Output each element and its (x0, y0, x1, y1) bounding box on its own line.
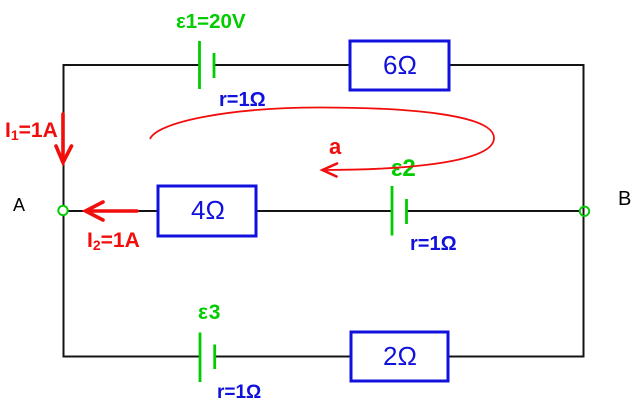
battery E2 long plate (391, 186, 394, 236)
svg-text:4Ω: 4Ω (191, 195, 225, 225)
svg-text:B: B (618, 188, 631, 210)
loop direction curve a (red spiral arrow) (150, 108, 494, 171)
battery E1 short plate (213, 53, 216, 78)
svg-text:6Ω: 6Ω (383, 50, 417, 80)
wire bottom-middle segment (battery e3 to 2 ohm box) (215, 356, 351, 358)
svg-text:2Ω: 2Ω (383, 341, 417, 371)
wire middle-left segment (node A to 4 ohm box) (68, 210, 158, 212)
resistor box 4 ohm (158, 186, 256, 236)
battery E3 long plate (199, 333, 202, 383)
wire bottom-left segment (64, 356, 201, 358)
resistor box 6 ohm (350, 41, 449, 90)
current arrow I2 (pointing left toward node A) (86, 202, 138, 220)
wire right vertical (583, 64, 585, 358)
node A terminal circle (58, 206, 67, 215)
svg-text:ε3: ε3 (198, 301, 221, 324)
current arrow I1 (down along left wire) (56, 114, 72, 163)
svg-text:r=1Ω: r=1Ω (410, 233, 457, 255)
resistor box 2 ohm (351, 332, 448, 381)
battery E2 short plate (405, 199, 408, 224)
svg-text:r=1Ω: r=1Ω (217, 382, 261, 403)
wire top-middle segment (battery to 6 ohm box) (214, 64, 350, 66)
svg-text:r=1Ω: r=1Ω (219, 89, 266, 111)
node B terminal circle (580, 207, 589, 216)
svg-text:A: A (13, 195, 25, 215)
svg-text:I1=1A: I1=1A (5, 119, 58, 143)
loop arrowhead (323, 164, 338, 177)
wire middle segment (4 ohm box to battery e2) (256, 210, 392, 212)
battery E1 long plate (198, 41, 201, 89)
wire left vertical (63, 64, 65, 358)
wire top-left segment (64, 64, 200, 66)
battery E3 short plate (213, 345, 216, 370)
svg-text:I2=1A: I2=1A (87, 229, 140, 253)
svg-text:a: a (329, 134, 342, 159)
wire top-right segment (449, 64, 584, 66)
wire middle-right segment (battery e2 to node B) (407, 210, 581, 212)
svg-text:ε1=20V: ε1=20V (176, 10, 246, 33)
wire bottom-right segment (448, 356, 584, 358)
